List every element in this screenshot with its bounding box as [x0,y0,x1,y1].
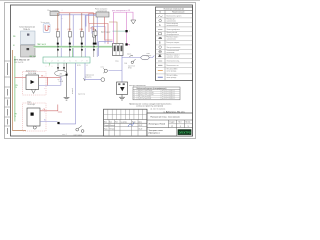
svg-text:Дата: Дата [139,121,142,123]
svg-text:ГЗШ+N: ГЗШ+N [23,29,30,31]
svg-text:ВВГнг-LS 3х1,5 0,66кВ: ВВГнг-LS 3х1,5 0,66кВ [138,94,154,96]
wire blue from U2 [86,16,96,27]
surge protector U-loop [43,24,50,33]
wire tan PEN riser [13,50,26,131]
junction node K1 [125,30,127,32]
label Бокс IP65 [28,101,36,105]
breaker QF1 [90,28,97,45]
wire blue out of ЩУ [40,121,57,123]
green PE band [34,44,113,48]
svg-text:жила провода: жила провода [167,71,177,73]
breaker QF5 [92,13,98,57]
svg-text:Розетка в нише с: Розетка в нише с [167,37,179,39]
wire blue main right [122,56,154,58]
svg-text:ЭЛЕКТРО: ЭЛЕКТРО [179,130,191,134]
red terminal marks below strip [46,66,53,68]
enclosure dashed around meter [23,72,47,96]
svg-text:QF2: QF2 [56,29,60,31]
svg-text:см. лист 2 альбома: см. лист 2 альбома [150,108,165,110]
svg-text:5: 5 [70,60,71,62]
svg-text:ПВ-1 1х6 ж/з 450В: ПВ-1 1х6 ж/з 450В [138,96,151,98]
wire red feeder [15,76,27,78]
legend row texts [167,15,183,79]
svg-text:заземлен. контакт.: заземлен. контакт. [167,57,180,59]
svg-text:Пров.: Пров. [104,129,109,131]
switch SA1 [127,54,133,57]
svg-text:05.22: 05.22 [139,125,143,127]
wire pink cooker circuit [114,12,134,44]
svg-text:W 1Ф 40А: W 1Ф 40А [28,72,37,75]
svg-text:+: + [62,10,63,12]
wire red bus top [59,12,94,14]
relay box U2 [95,8,109,17]
breaker QF4 [80,13,86,57]
wire blue hall drop [59,63,76,124]
junction node K3 [57,122,59,124]
svg-text:ПуГВ 1х4 ж/з 450В: ПуГВ 1х4 ж/з 450В [138,98,151,100]
label right of lamp [147,53,152,57]
breaker QF2 [56,13,62,57]
LEGEND TABLE [156,7,193,81]
svg-text:согласно проекту электрики: согласно проекту электрики [136,106,164,108]
svg-text:7: 7 [82,60,83,62]
svg-text:Жилой дом. Некий: Жилой дом. Некий [149,123,165,126]
svg-text:ВРУ 380/220 1Ф: ВРУ 380/220 1Ф [14,58,30,61]
ground block box 2 [27,34,29,36]
wire green PE to strip [50,48,73,66]
wire red drop to panel [105,17,113,40]
svg-text:ПВ -3х1,5 ВВГнг: ПВ -3х1,5 ВВГнг [167,75,179,77]
cable journal table [133,87,180,100]
socket plug XS1 [101,67,108,74]
svg-text:розетки: розетки [71,88,73,94]
labels under strip [77,65,88,67]
svg-text:1: 1 [46,60,47,62]
svg-text:ПВС 3х4 ГВ: ПВС 3х4 ГВ [14,62,24,64]
meter box W1 [26,75,39,90]
svg-text:№: № [159,11,161,14]
svg-text:QF1: QF1 [90,28,94,30]
svg-text:Выключатель однокл.: Выключатель однокл. [167,15,183,17]
junction box ЩУ [27,108,40,129]
svg-text:по ГОСТ 22483-12: по ГОСТ 22483-12 [162,96,175,98]
svg-text:заземлением: заземлением [167,39,176,41]
lamp EL2 with switch [74,126,85,137]
svg-text:Изм: Изм [104,121,107,123]
wire red from U2 [89,14,96,24]
svg-text:×: × [44,87,45,90]
svg-text:1: 1 [188,126,189,128]
wire red from meter [39,77,61,85]
note text [129,102,171,110]
svg-text:6: 6 [76,60,77,62]
svg-text:+: + [49,66,50,68]
wire PE teal branch [113,30,126,32]
lamp EL1 [141,55,149,59]
label at riser [115,61,128,66]
wire PE drop dark [66,63,68,97]
svg-text:Щит гараж: Щит гараж [101,32,111,34]
svg-text:для электроплиты 1Ф: для электроплиты 1Ф [112,9,131,12]
svg-text:лист 1: лист 1 [62,134,67,136]
svg-text:05.22: 05.22 [139,129,143,131]
svg-text:кухня с/у: кухня с/у [78,94,85,96]
ground block box 1 [21,31,36,45]
switch SA2 [128,59,136,69]
wire blue to panel [99,42,113,56]
svg-text:Назначение план. 1 (основная): Назначение план. 1 (основная) [151,117,180,119]
svg-text:ВВГ 3х4: ВВГ 3х4 [30,56,36,58]
meter label [26,69,37,74]
svg-text:2: 2 [129,44,130,46]
svg-text:IP-65 ЩУ: IP-65 ЩУ [28,104,36,106]
wire blue branch right [109,56,123,83]
svg-text:Иванов: Иванов [110,125,115,127]
wire blue loop [92,27,105,44]
VRU cabinet box [21,45,36,57]
terminal triangle [131,20,136,24]
svg-text:распределительн.: распределительн. [167,34,180,36]
svg-text:ЛВ +: ЛВ + [41,75,45,77]
meter ellipse Wh [55,63,68,76]
svg-text:улица: улица [147,55,152,57]
socket XS3 [84,78,105,82]
svg-text:QF4: QF4 [80,29,84,31]
svg-text:Листов: Листов [185,122,190,124]
svg-text:заземлением: заземлением [167,21,176,23]
svg-text:4: 4 [64,60,65,62]
svg-text:Лист: Лист [178,122,182,124]
svg-text:выкл.: выкл. [127,54,132,56]
svg-text:Наименование: Наименование [172,12,184,14]
ground symbol GND2 [64,97,70,100]
junction node diamonds on PE band [57,46,95,48]
node labels [129,31,130,46]
svg-text:Выключатель авт.: Выключатель авт. [167,65,180,67]
relay box U1 [48,10,63,21]
svg-text:+: + [52,66,53,68]
wire green PE riser [14,56,16,122]
svg-text:кВт: кВт [60,73,63,75]
svg-text:Блок реле напряж.: Блок реле напряж. [167,42,181,44]
left margin stamp cells [5,61,11,126]
wire blue from meter [39,85,61,87]
svg-text:ПВ -3х2,5 ВВГнг: ПВ -3х2,5 ВВГнг [167,69,179,71]
svg-text:8: 8 [87,60,88,62]
svg-text:машина: машина [85,77,91,79]
svg-text:Кол: Кол [109,121,112,123]
wire stubs through strip [58,45,94,57]
svg-text:Петров: Петров [110,129,115,131]
svg-text:1: 1 [180,126,181,128]
junction node K2 [125,43,127,45]
svg-text:Стадия: Стадия [169,122,174,124]
svg-text:Розетка в гараже с: Розетка в гараже с [167,55,180,57]
node PE green labels [15,85,19,118]
svg-text:свет гараж: свет гараж [74,134,83,136]
wire brown drop [109,22,117,44]
svg-text:Лист: Лист [115,121,119,123]
terminal marks magenta [44,87,45,114]
svg-text:2: 2 [129,31,130,33]
wire below meter ellipse [60,76,62,85]
svg-text:сеть: сеть [101,67,104,69]
svg-text:IP44: IP44 [128,68,132,70]
svg-text:жила провода: жила провода [167,77,177,79]
wire blue washer branch [85,63,101,80]
breaker QF3 [68,13,74,57]
svg-text:контур заземления: контур заземления [129,85,146,87]
label стиральная машина [85,75,94,79]
legend symbols [158,16,163,78]
svg-text:напряжения: напряжения [97,10,107,12]
svg-text:Подп.: Подп. [132,121,137,123]
svg-text:Блок освещения: Блок освещения [167,23,179,25]
svg-text:Люстра потолочная: Люстра потолочная [167,47,181,49]
wire red loop [89,24,108,45]
TITLE BLOCK [104,109,193,136]
svg-text:Реле напряж.: Реле напряж. [48,10,60,12]
svg-text:(Принципал.): (Принципал.) [149,133,160,135]
label: Блок Заземления [20,27,35,31]
svg-text:по ГОСТ 31996-12: по ГОСТ 31996-12 [162,94,175,96]
svg-text:ВВГнг-LS 3х6 0,66кВ: ВВГнг-LS 3х6 0,66кВ [138,90,152,92]
svg-text:ПВС 3х2,5: ПВС 3х2,5 [37,44,46,46]
wire blue bus top [59,14,97,16]
svg-text:+: + [46,66,47,68]
svg-text:+: + [62,18,63,20]
svg-text:QF3: QF3 [68,29,72,31]
junction dots below band [57,49,95,51]
svg-text:по ГОСТ 22483-12: по ГОСТ 22483-12 [162,98,175,100]
svg-text:по ГОСТ 31996-12: по ГОСТ 31996-12 [162,92,175,94]
svg-text:N PE: N PE [77,65,81,67]
svg-text:ввод: ввод [115,61,119,63]
svg-text:L1: L1 [86,65,88,67]
svg-text:3: 3 [58,60,59,62]
svg-text:N+: N+ [44,120,46,122]
svg-text:Розетка с/у с: Розетка с/у с [167,19,176,21]
terminal strip X1 [43,57,90,63]
panel box ЩР [113,44,124,56]
meter bottom marks [58,78,64,83]
svg-text:по ГОСТ 31996-12: по ГОСТ 31996-12 [162,90,175,92]
enclosure dashed around lower box [23,103,47,131]
ground symbol GND1 [119,95,125,101]
ground electrode box [117,82,128,95]
wire red out of ЩУ [40,105,62,113]
svg-text:ВВГнг-LS 3х2,5 0,66кВ: ВВГнг-LS 3х2,5 0,66кВ [138,92,154,94]
ground triangle below meter [32,90,36,94]
svg-text:2: 2 [52,60,53,62]
svg-text:светильник: светильник [167,52,175,54]
svg-text:Обозначение общ.: Обозначение общ. [167,61,181,63]
